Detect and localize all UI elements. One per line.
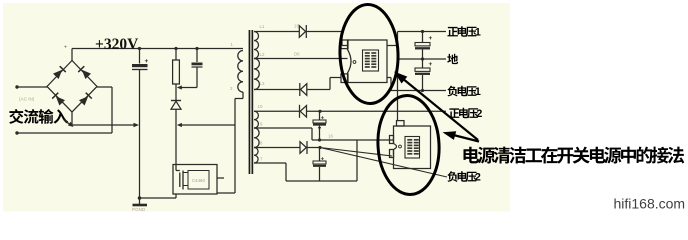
label 正电压2 (449, 108, 459, 117)
transformer T1 secondary winding 1 (254, 32, 259, 59)
transformer T1 secondary winding 2 (254, 111, 258, 128)
svg-text:hifi168.com: hifi168.com (614, 196, 686, 212)
op-amp U1 power cleaner module 1 (348, 40, 388, 83)
diode D5 -V2 (254, 147, 300, 149)
title 电源清洁工在开关电源中的接法 (463, 147, 479, 164)
wire to IC2 (312, 139, 394, 141)
svg-text:PGND: PGND (132, 207, 146, 212)
label 交流输入 (9, 109, 23, 124)
svg-text:1: 1 (475, 27, 481, 39)
svg-text:1: 1 (475, 86, 481, 98)
wire primary bottom to drain (234, 99, 236, 194)
wire stub pin7 (254, 162, 286, 164)
wires IC1 right side (387, 45, 398, 47)
svg-text:+: + (429, 35, 433, 42)
wire ground rail (398, 58, 447, 60)
capacitor C5 (319, 111, 321, 120)
wire secondary center tap ground (254, 58, 348, 60)
wire down to bus (356, 140, 358, 181)
capacitor C6 (319, 148, 321, 162)
capacitor C4 (422, 59, 424, 68)
resistor R1 snubber (174, 47, 177, 50)
annotation arrow to bridge (64, 120, 72, 126)
label 正电压1 (447, 27, 457, 36)
svg-text:L1: L1 (260, 24, 265, 29)
svg-text:16: 16 (294, 24, 299, 29)
diode D2 +V1 (299, 26, 305, 38)
svg-text:+: + (145, 58, 149, 65)
bridge diode upper-left (53, 70, 62, 79)
capacitor C2 snubber (195, 47, 198, 50)
wire to IC1 pin in+ (341, 32, 343, 46)
annotation arrow to ellipse 2 (448, 134, 480, 142)
highlight ellipse around U1 (338, 4, 399, 105)
wire drain right (217, 177, 224, 179)
svg-text:+320V: +320V (95, 36, 139, 53)
wire negative bus (72, 124, 136, 126)
transistor Q1 switch module (173, 165, 217, 195)
svg-text:C4460: C4460 (192, 178, 205, 183)
svg-text:(AC IN): (AC IN) (19, 97, 35, 102)
svg-text:2: 2 (476, 108, 482, 120)
wire drain node down to switch (175, 125, 177, 165)
ground PGND (138, 196, 142, 200)
capacitor C3 (422, 32, 424, 43)
label 负电压1 (447, 86, 457, 97)
annotation arrow to ellipse 1 (400, 76, 479, 140)
wire AC input line 1 (17, 86, 47, 88)
wire -V1 rail (391, 90, 446, 92)
bridge diode lower-right (79, 96, 88, 105)
transformer T1 primary winding (238, 51, 243, 93)
op-amp U2 power cleaner module 2 (394, 126, 431, 169)
bridge rectifier BR1 (47, 61, 97, 113)
svg-text:+: + (321, 156, 325, 162)
diode D4 +V2 (254, 110, 300, 112)
svg-text:+: + (321, 115, 325, 121)
wire to IC1 pin in- (329, 78, 331, 90)
svg-text:+: + (64, 45, 67, 51)
svg-text:L2: L2 (260, 52, 265, 57)
node +320V rail (72, 48, 243, 50)
diode D3 -V1 (254, 89, 300, 91)
wire secondary stub 1 (254, 31, 299, 33)
svg-text:2: 2 (475, 172, 481, 184)
svg-text:10: 10 (258, 104, 263, 109)
bridge diode upper-right (82, 70, 91, 79)
highlight ellipse around U2 (375, 94, 441, 196)
wire AC input line 2 (17, 132, 112, 134)
svg-text:L3: L3 (260, 81, 265, 86)
svg-text:16: 16 (328, 134, 333, 139)
wire +V1 rail (398, 31, 447, 33)
diode D1 clamp (171, 100, 181, 102)
capacitor C1 main filter (138, 47, 141, 50)
wire ground to mosfet source (140, 197, 177, 199)
wire diagonal to -V2 label (320, 148, 447, 178)
svg-text:+: + (429, 61, 433, 68)
wire diagonal to IC2 pin (320, 148, 392, 157)
label 负电压2 (447, 171, 457, 182)
wire bus group2 (286, 180, 357, 182)
bridge diode lower-left (56, 96, 65, 105)
svg-text:D6: D6 (294, 52, 300, 57)
transformer T1 core (249, 30, 251, 174)
label 地 (447, 54, 458, 64)
wire stub pin9 jog (254, 127, 312, 129)
wire snubber to drain node (179, 124, 236, 126)
